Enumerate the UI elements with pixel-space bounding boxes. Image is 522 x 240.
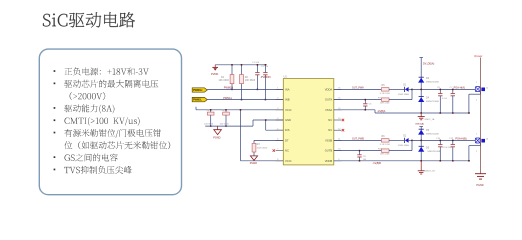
bullet line 8 — [54, 156, 56, 158]
svg-text:C8: C8 — [363, 156, 367, 158]
svg-text:R5: R5 — [382, 84, 386, 87]
diode D1 — [403, 87, 405, 92]
svg-text:MMSZ5246B: MMSZ5246B — [428, 151, 441, 153]
wire OUTB bottom — [334, 150, 382, 152]
bullet line 2 — [54, 83, 56, 85]
svg-text:PGND: PGND — [250, 162, 257, 165]
wire OUTB top — [334, 139, 382, 141]
wire DT — [254, 139, 283, 141]
svg-text:U2: U2 — [284, 75, 288, 79]
svg-text:-Vs(B)B: -Vs(B)B — [373, 162, 382, 165]
svg-text:OUT_PWA: OUT_PWA — [352, 86, 364, 89]
svg-text:DT: DT — [285, 138, 289, 142]
svg-text:C6: C6 — [369, 104, 373, 106]
svg-text:-Vs(B)A: -Vs(B)A — [377, 110, 386, 113]
ground PGND 2 — [250, 156, 257, 161]
wire IN A — [207, 88, 283, 90]
wire J4 pin2 — [480, 143, 482, 146]
resistor R6 — [381, 139, 389, 142]
svg-text:D4: D4 — [426, 97, 430, 100]
svg-text:MMSZ5246B: MMSZ5246B — [426, 82, 439, 84]
svg-text:SS34 SMA: SS34 SMA — [398, 144, 409, 147]
svg-text:5.1R 1206: 5.1R 1206 — [380, 144, 391, 146]
bullet line 1 — [54, 70, 56, 72]
svg-text:C4: C4 — [222, 110, 226, 112]
wire — [409, 139, 412, 141]
svg-text:2: 2 — [476, 151, 478, 153]
wire IN B — [207, 99, 283, 101]
net label DVDD_A — [419, 57, 423, 59]
connector J4 — [475, 133, 489, 152]
svg-text:PWM1L: PWM1L — [193, 99, 203, 102]
svg-text:DV_DD(A): DV_DD(A) — [423, 63, 434, 66]
svg-text:VCCI: VCCI — [285, 159, 292, 163]
ground GND2B — [420, 161, 422, 171]
svg-text:5.1R 1206: 5.1R 1206 — [380, 93, 391, 95]
svg-text:1: 1 — [476, 133, 478, 135]
capacitor C3 — [210, 110, 212, 112]
svg-text:J2: J2 — [486, 87, 489, 89]
svg-text:GND: GND — [285, 118, 291, 122]
resistor R11 — [381, 149, 389, 152]
wire — [389, 139, 404, 141]
svg-text:2: 2 — [476, 99, 478, 101]
resistor R5 — [381, 88, 389, 91]
svg-text:INA: INA — [285, 87, 290, 91]
svg-text:VCCI: VCCI — [285, 108, 292, 112]
svg-text:C3: C3 — [206, 110, 210, 112]
no-connect marks — [342, 119, 344, 121]
capacitor C4 — [225, 110, 227, 112]
svg-text:10R 1206: 10R 1206 — [380, 154, 390, 156]
svg-text:104 0603: 104 0603 — [204, 124, 214, 126]
svg-text:NC: NC — [285, 149, 289, 153]
svg-text:R3: R3 — [257, 143, 261, 146]
resistor R7 — [381, 98, 389, 101]
zener line A — [420, 58, 422, 114]
svg-text:C2 104: C2 104 — [261, 66, 269, 68]
svg-text:PVDD33: PVDD33 — [261, 76, 271, 79]
svg-text:C7: C7 — [450, 87, 454, 89]
svg-text:PGND: PGND — [476, 184, 483, 187]
svg-text:OUTB: OUTB — [325, 149, 333, 153]
svg-text:MMSZ5246B: MMSZ5246B — [426, 101, 439, 103]
svg-text:10K 0603: 10K 0603 — [219, 79, 230, 82]
resistor R2 — [241, 65, 243, 75]
svg-text:VSSA: VSSA — [325, 108, 332, 112]
svg-text:D1: D1 — [403, 84, 407, 87]
wire OUTA top — [334, 88, 382, 90]
svg-text:100K 0603: 100K 0603 — [257, 148, 268, 150]
svg-text:D6: D6 — [426, 146, 430, 149]
svg-text:C10: C10 — [436, 138, 441, 140]
title: SiC drive circuit — [43, 12, 135, 28]
diode D2 — [403, 138, 405, 143]
svg-text:VDDA: VDDA — [325, 87, 333, 91]
svg-text:OUTA: OUTA — [325, 98, 332, 102]
svg-text:10K 0603: 10K 0603 — [245, 79, 256, 82]
svg-text:GND2(A): GND2(A) — [415, 123, 424, 126]
svg-text:VDDB: VDDB — [325, 159, 333, 163]
svg-text:D3: D3 — [426, 77, 430, 80]
svg-text:R7: R7 — [378, 97, 382, 99]
capacitor C7 — [452, 89, 454, 93]
svg-text:4.7uF 50V: 4.7uF 50V — [443, 147, 453, 149]
wire VCC1 to pin8 — [240, 110, 242, 161]
ground PGND right — [475, 174, 486, 179]
svg-text:D2: D2 — [403, 135, 407, 138]
ground PGND — [217, 126, 219, 130]
zener D6 — [419, 145, 424, 147]
svg-text:1: 1 — [476, 82, 478, 84]
svg-text:D5: D5 — [426, 129, 430, 132]
gate wire A — [412, 88, 475, 90]
svg-text:MMSZ5246B: MMSZ5246B — [426, 134, 439, 136]
bullet line 9 — [54, 169, 56, 171]
bullet line 5 — [54, 119, 56, 121]
capacitor C1 — [256, 65, 258, 73]
svg-text:OUT_PWB: OUT_PWB — [352, 137, 364, 140]
svg-text:Vpower: Vpower — [474, 55, 483, 58]
svg-text:4.7uF: 4.7uF — [442, 98, 448, 100]
svg-text:NC: NC — [328, 128, 332, 132]
svg-text:J4: J4 — [486, 139, 489, 141]
svg-text:104 0603: 104 0603 — [220, 124, 230, 126]
rail -Vs B / VDDB — [334, 160, 470, 162]
wire DISABLE — [266, 129, 284, 131]
bullet line 3 — [70, 92, 106, 100]
capacitor C2 — [264, 65, 266, 73]
svg-text:PWM1L: PWM1L — [223, 97, 233, 100]
connector PWM1L — [192, 97, 207, 101]
capacitor C8 — [359, 151, 361, 155]
power bus vertical — [480, 58, 482, 174]
capacitor C6 — [364, 100, 366, 104]
svg-text:C5: C5 — [437, 87, 441, 89]
zener D5 — [419, 128, 424, 130]
wire merge A — [389, 99, 412, 101]
svg-text:NC: NC — [328, 118, 332, 122]
svg-text:INB: INB — [285, 98, 290, 102]
gnd rail — [205, 125, 253, 127]
svg-text:C12: C12 — [449, 138, 454, 140]
wire J2 pin2 — [480, 92, 482, 95]
wire OUTA bottom — [334, 99, 382, 101]
power port PVDD — [214, 65, 216, 68]
zener line B — [420, 127, 422, 161]
svg-text:PVDD: PVDD — [211, 72, 218, 76]
svg-text:PGA-H(B): PGA-H(B) — [455, 138, 466, 141]
resistor R3 — [253, 140, 255, 143]
bullet line 6 — [54, 132, 56, 134]
svg-text:DIS: DIS — [285, 128, 290, 132]
wire — [389, 88, 404, 90]
zener D3 — [419, 76, 424, 78]
wire VSSA — [334, 109, 375, 111]
capacitor C12 — [452, 140, 454, 144]
gate wire B — [412, 139, 475, 141]
wire merge B — [389, 150, 412, 152]
bullet line 7 — [64, 141, 170, 149]
svg-text:VSSB: VSSB — [325, 138, 332, 142]
ground GND2A — [420, 113, 422, 117]
capacitor C5 — [439, 89, 441, 93]
svg-text:GND2_1A: GND2_1A — [424, 118, 435, 121]
rail VCC1 — [196, 109, 283, 111]
svg-text:10R 1206: 10R 1206 — [380, 103, 390, 105]
svg-text:SS34 SMA: SS34 SMA — [398, 93, 409, 96]
svg-text:PWM1H: PWM1H — [224, 87, 234, 90]
resistor R1 — [231, 65, 233, 75]
power rail PVDD — [215, 64, 267, 66]
svg-text:PWM1H: PWM1H — [193, 89, 203, 92]
svg-text:PGA-H(A): PGA-H(A) — [454, 87, 465, 90]
wire — [409, 88, 412, 90]
svg-text:R6: R6 — [382, 135, 386, 138]
bullet text box — [39, 49, 181, 195]
zener D4 — [419, 96, 424, 98]
svg-text:GND2_1B: GND2_1B — [425, 171, 436, 173]
svg-text:PGND: PGND — [213, 136, 220, 139]
connector J2 — [475, 82, 489, 101]
connector PWM1H — [192, 88, 207, 92]
rail -Vs A — [375, 112, 470, 114]
capacitor C10 — [439, 140, 441, 144]
wire GND1 — [253, 119, 283, 121]
bullet line 4 — [54, 107, 56, 109]
op-amp/driver IC U2 — [276, 75, 342, 165]
svg-text:C1 104: C1 104 — [252, 62, 260, 64]
